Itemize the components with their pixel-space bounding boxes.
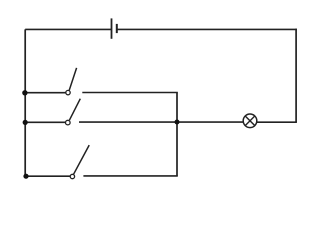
wire right vertical (295, 29, 297, 123)
switch S2 pivot contact circle (66, 120, 71, 125)
switch S3 pivot contact circle (70, 174, 74, 178)
wire row3 right segment (83, 175, 177, 177)
lamp L1 cross stroke 2 (245, 116, 255, 126)
wire row1 right segment (82, 92, 178, 94)
switch S1 lever (69, 68, 76, 90)
node dot row2 on left vertical (23, 120, 28, 125)
lamp L1 circle (243, 114, 257, 128)
wire middle row (switch S2 to lamp through node J) (79, 121, 243, 123)
node dot row1 on left vertical (22, 90, 27, 95)
wire row1 left segment (25, 92, 66, 94)
wire lamp right lead (257, 121, 297, 123)
wire top-left (battery negative lead to top-left corner) (25, 28, 111, 30)
switch S2 lever (69, 99, 80, 121)
node dot row3 bottom-left corner (23, 174, 28, 179)
switch S3 lever (74, 145, 90, 174)
wire top-right (battery to top-right corner) (117, 28, 297, 30)
wire row3 left segment (26, 175, 70, 177)
lamp L1 cross stroke 1 (245, 116, 255, 126)
battery B1 short plate (116, 24, 118, 33)
switch S1 pivot contact circle (66, 90, 70, 94)
wire middle bus vertical (176, 92, 178, 175)
wire row2 left segment (25, 121, 65, 123)
node dot J on middle bus (175, 120, 180, 125)
battery B1 long plate (111, 18, 113, 38)
wire left vertical (24, 29, 26, 176)
